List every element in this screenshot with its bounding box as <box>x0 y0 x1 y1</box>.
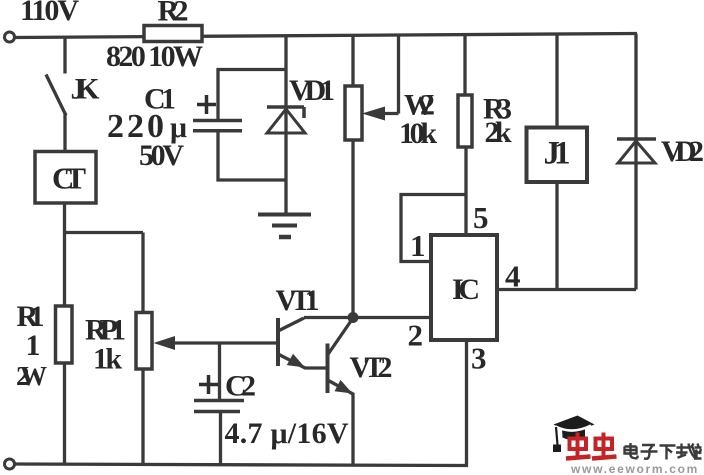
svg-text:VT2: VT2 <box>350 351 393 384</box>
svg-text:1k: 1k <box>93 343 122 376</box>
svg-text:3: 3 <box>471 341 487 376</box>
svg-text:JK: JK <box>71 73 101 106</box>
svg-text:VT1: VT1 <box>276 284 320 317</box>
svg-text:4.7 μ/16V: 4.7 μ/16V <box>225 417 349 450</box>
svg-text:www.eeworm.com: www.eeworm.com <box>570 462 699 475</box>
svg-text:10k: 10k <box>399 117 437 150</box>
svg-text:2k: 2k <box>485 116 512 149</box>
svg-text:C2: C2 <box>225 370 256 403</box>
svg-text:VD2: VD2 <box>661 135 704 168</box>
svg-text:2W: 2W <box>16 361 47 391</box>
svg-text:VD1: VD1 <box>289 74 335 107</box>
svg-text:J1: J1 <box>544 136 571 172</box>
svg-text:1: 1 <box>26 329 41 362</box>
svg-text:4: 4 <box>505 259 521 294</box>
svg-text:IC: IC <box>452 273 480 306</box>
svg-text:1: 1 <box>410 228 426 263</box>
svg-text:R2: R2 <box>158 0 189 28</box>
svg-text:2: 2 <box>408 318 424 353</box>
svg-text:820 10W: 820 10W <box>106 40 203 73</box>
svg-text:110V: 110V <box>20 0 79 27</box>
svg-text:5: 5 <box>473 200 489 235</box>
svg-text:CT: CT <box>52 161 86 196</box>
svg-text:50V: 50V <box>139 139 184 172</box>
